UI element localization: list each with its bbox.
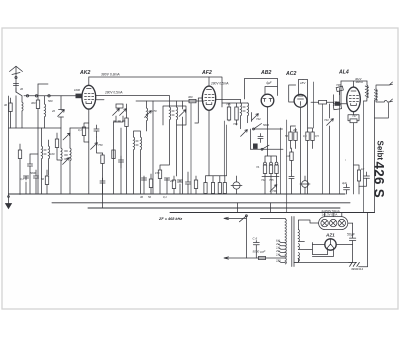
wire vertical x38 down: [37, 128, 39, 194]
wire y82 top: [302, 79, 304, 81]
resistor R9: [158, 170, 161, 179]
wire: [70, 127, 89, 129]
IF transformer T1 coil Lb: [177, 107, 178, 120]
resistor R35: [194, 180, 197, 189]
svg-text:1F: 1F: [361, 167, 364, 171]
svg-text:4V: 4V: [276, 242, 279, 246]
volume pot P2 circle: [233, 182, 240, 189]
svg-text:AB2: AB2: [260, 70, 271, 76]
svg-text:2,2: 2,2: [275, 246, 280, 250]
svg-text:5000: 5000: [263, 123, 269, 127]
svg-text:0,1: 0,1: [303, 134, 307, 138]
resistor R24: [294, 132, 297, 141]
svg-text:7A: 7A: [256, 165, 259, 169]
tube AZ1 envelope: [325, 239, 336, 250]
wire: [152, 101, 154, 194]
capacitor C13: [177, 180, 182, 194]
row wires: [262, 156, 279, 194]
dial lamp 3: [338, 219, 345, 226]
coupling dashes: [243, 107, 245, 111]
supply bus D: [170, 212, 375, 214]
trimmer C21: [241, 130, 248, 137]
voltage selector taps: [279, 241, 286, 263]
svg-text:380V 0,8mA: 380V 0,8mA: [101, 73, 120, 77]
resistor R10 on supply: [189, 99, 196, 102]
T2 wires: [241, 100, 248, 129]
trimmer C10: [179, 110, 186, 117]
AL4 electrodes: [349, 91, 358, 106]
AC2 cathode: [300, 107, 302, 194]
wire: [339, 88, 341, 194]
switch S2: [254, 124, 283, 130]
screen line: [96, 96, 169, 100]
wire: [334, 193, 336, 195]
chassis ground psu: [349, 262, 360, 266]
resistor R27: [290, 152, 293, 161]
smoothing capacitor C20 50uF: [349, 223, 355, 262]
svg-text:746: 746: [272, 189, 277, 193]
svg-text:AF2: AF2: [201, 70, 212, 76]
svg-text:745: 745: [269, 178, 274, 182]
electrolytic C18 4uF: [344, 184, 350, 194]
wire: [120, 128, 122, 194]
oscillator coil L3: [61, 148, 62, 161]
svg-text:744: 744: [261, 178, 266, 182]
resistor R23: [289, 132, 292, 141]
AB2 cathode down: [267, 107, 269, 156]
field resistor R32: [357, 170, 360, 181]
wire right vertical: [374, 100, 376, 213]
svg-text:4µF: 4µF: [342, 181, 347, 185]
wire junction bus: [9, 127, 62, 129]
coil L4: [70, 148, 71, 161]
svg-text:AK2: AK2: [79, 70, 90, 76]
trimmer C8: [113, 109, 120, 116]
padder capacitor C4: [23, 176, 28, 194]
coupling dashes: [114, 120, 125, 122]
wire: [15, 88, 17, 128]
capacitor C5: [33, 170, 38, 194]
resistor R19 dark: [253, 144, 258, 149]
svg-text:AZ1: AZ1: [325, 233, 335, 238]
svg-text:470: 470: [152, 109, 157, 113]
T4 secondary HV: [298, 230, 299, 242]
wire AK2 anode top: [88, 77, 90, 85]
svg-text:5000 µµF: 5000 µµF: [253, 250, 266, 254]
resistor R7: [101, 155, 104, 164]
svg-text:0,5: 0,5: [315, 134, 319, 138]
svg-text:20: 20: [51, 109, 55, 113]
AB2 top box wire: [245, 79, 278, 100]
supply bus C: [88, 207, 340, 209]
wire bottom bus psu: [294, 259, 353, 263]
resistor R25: [306, 132, 309, 141]
svg-text:150: 150: [155, 171, 160, 175]
mains lead upper: [224, 217, 246, 219]
svg-text:50: 50: [148, 195, 151, 199]
capacitor C14: [258, 134, 263, 143]
T3 wires: [364, 81, 368, 101]
coil L2 antenna coil: [45, 104, 46, 117]
svg-text:5000: 5000: [30, 171, 36, 175]
T4 secondary heater: [298, 244, 299, 250]
trimmer C6: [63, 158, 70, 165]
capacitor C12: [164, 178, 169, 194]
anode supply line 380/0,8mA: [89, 77, 222, 107]
wire: [224, 121, 226, 176]
cathode resistor R31: [350, 119, 357, 123]
capacitor C15: [289, 171, 294, 195]
svg-text:748: 748: [336, 83, 341, 87]
capacitor C24: [185, 172, 190, 194]
resistor R11: [149, 179, 152, 188]
wire: [190, 103, 192, 194]
IF transformer T1 coil La: [170, 107, 171, 120]
capacitor C25: [100, 178, 105, 194]
svg-text:280V 0,5mA: 280V 0,5mA: [210, 82, 229, 86]
svg-text:50µF: 50µF: [347, 233, 356, 237]
coupling dashes: [136, 141, 138, 145]
svg-text:750: 750: [98, 143, 103, 147]
AC2 electrodes: [298, 96, 304, 106]
svg-text:744: 744: [256, 117, 261, 121]
trimmer resistor R21: [270, 162, 273, 165]
svg-text:746: 746: [233, 122, 238, 126]
svg-text:0,1: 0,1: [20, 177, 24, 181]
coupling dashes: [65, 151, 68, 159]
tube AK2 envelope: [82, 85, 96, 109]
coil L1: [22, 102, 23, 111]
resistor R16: [223, 183, 226, 194]
coupling dashes: [44, 150, 46, 154]
capacitor C7: [94, 125, 99, 137]
T4 primary top wire: [260, 217, 285, 220]
secondary wires: [294, 220, 319, 262]
component row under IF: capacitor C11: [141, 176, 146, 194]
capacitor C17: [359, 172, 370, 186]
svg-text:300: 300: [31, 101, 36, 105]
svg-text:36mA: 36mA: [356, 80, 363, 84]
wires R17 R18: [222, 103, 248, 125]
small value labels texture: [4, 83, 364, 263]
AZ1 electrodes: [328, 240, 334, 250]
AC2 grid wire: [289, 85, 296, 102]
coupling dashes: [172, 111, 174, 115]
trimmer pot P1: [91, 143, 98, 150]
svg-text:30: 30: [140, 195, 143, 199]
svg-text:220: 220: [275, 259, 281, 263]
wires IFT2: [134, 131, 141, 194]
resistor R1: [9, 103, 12, 112]
resistor R3: [45, 176, 48, 185]
wire: [322, 104, 324, 194]
svg-text:280V 0,5mA: 280V 0,5mA: [104, 91, 123, 95]
svg-text:2,5: 2,5: [275, 253, 280, 257]
component row: resistor R13: [204, 183, 207, 194]
tube AB2 envelope: [261, 94, 274, 107]
resistor R18: [235, 107, 238, 120]
wire: [363, 101, 365, 213]
switch S1 contacts: [16, 92, 62, 96]
svg-text:2M: 2M: [169, 179, 174, 183]
resistor R4: [55, 139, 58, 148]
wire: [250, 129, 252, 149]
svg-text:4999/414: 4999/414: [351, 267, 363, 271]
detector diode load pot P3: [252, 114, 259, 121]
resistor R15: [218, 183, 221, 194]
lamp feed wires: [325, 213, 353, 224]
AB2 diode plates: [263, 99, 272, 102]
pot P5 circle: [302, 181, 309, 188]
svg-text:30: 30: [4, 103, 7, 107]
trimmer capacitor C2: [58, 110, 65, 117]
resistor R28 coupling: [319, 100, 327, 104]
svg-text:1x6,3V 0,3A: 1x6,3V 0,3A: [322, 213, 338, 217]
trimmer resistor R20: [264, 162, 267, 165]
svg-text:50: 50: [41, 177, 44, 181]
resistor R8: [125, 118, 128, 127]
loudspeaker: [375, 82, 393, 118]
svg-text:50: 50: [285, 134, 288, 138]
svg-text:500: 500: [48, 99, 53, 103]
supply bus B: [52, 202, 350, 204]
wire AF2 top: [208, 77, 210, 86]
svg-text:AC2: AC2: [285, 71, 296, 77]
AF2 electrodes: [205, 90, 214, 105]
wire: [345, 159, 347, 161]
wire psu right: [359, 213, 368, 267]
resistor R34: [112, 150, 115, 159]
resistor R36: [18, 150, 21, 159]
capacitor C22: [27, 154, 38, 194]
resistor R6: [82, 127, 85, 136]
oscillator coil L7 variable: [147, 108, 148, 121]
svg-text:0,1: 0,1: [163, 195, 167, 199]
wire AF2 cathode: [208, 110, 210, 176]
resistor R2: [36, 100, 39, 109]
AC2 top box: [299, 80, 308, 103]
transformer T4 primary: [285, 219, 286, 264]
svg-text:426 S: 426 S: [372, 162, 387, 199]
svg-text:6,8: 6,8: [276, 239, 280, 243]
IF coil L5: [134, 137, 135, 150]
wire AF2 grid left: [195, 98, 203, 123]
switch S3 line: [251, 145, 284, 149]
capacitor C1: [13, 84, 18, 86]
wire: [313, 82, 315, 128]
IF transformer T2 coil: [241, 103, 242, 116]
trimmer C3: [63, 133, 70, 140]
IF transformer T2 coil: [248, 103, 249, 116]
svg-text:742: 742: [334, 100, 339, 104]
svg-text:C 6: C 6: [253, 237, 258, 241]
output transformer T3 primary: [365, 85, 368, 98]
dial lamp 2: [330, 219, 337, 226]
resistor R33: [259, 256, 266, 259]
tone pot P4: [270, 185, 277, 192]
mains lead lower: [224, 257, 285, 259]
resistor R14: [211, 183, 214, 194]
trimmer C9: [120, 109, 127, 116]
trimmer arrow through L7: [145, 111, 152, 118]
svg-text:1000: 1000: [74, 88, 80, 92]
output transformer T3 secondary: [374, 89, 377, 100]
svg-text:745: 745: [226, 102, 231, 106]
row top wire: [206, 176, 227, 194]
grid resistor R5 (dark box): [76, 94, 82, 99]
resistor R17: [227, 107, 230, 120]
resistor R12: [172, 180, 175, 189]
svg-text:4V: 4V: [276, 249, 279, 253]
wire y101: [136, 100, 196, 102]
dial lamp 1: [321, 219, 328, 226]
wire: [281, 120, 287, 213]
wire left edge vertical: [8, 96, 10, 194]
oscillator coil L8: [42, 146, 43, 159]
trimmer resistor R22: [275, 162, 278, 165]
T1 frame wires: [163, 96, 186, 177]
capacitor C23: [118, 156, 123, 168]
wire grid to switch: [62, 95, 76, 97]
svg-text:743: 743: [324, 118, 329, 122]
svg-text:40: 40: [20, 87, 23, 91]
ground arrow bottom-left: [6, 194, 12, 209]
tone capacitor pot P6: [327, 119, 334, 126]
svg-text:ZF = 468 kHz: ZF = 468 kHz: [158, 217, 182, 221]
svg-text:0,1: 0,1: [78, 128, 82, 132]
resistor R29 box: [333, 104, 341, 110]
wire AF2 right: [216, 99, 241, 101]
antenna: [10, 66, 23, 79]
wire: [113, 122, 115, 194]
tube AC2 envelope: [294, 94, 307, 107]
tube AL4 envelope: [347, 87, 361, 112]
tube AF2 envelope: [202, 86, 215, 110]
wire antenna down: [15, 79, 17, 92]
AZ1 wires: [312, 243, 352, 257]
svg-text:AL4: AL4: [338, 70, 349, 76]
svg-text:Seibt: Seibt: [376, 141, 385, 161]
svg-text:300: 300: [188, 95, 193, 99]
wire: [60, 96, 62, 148]
mains switch S4: [239, 216, 246, 258]
capacitor C19: [253, 241, 259, 259]
L8 L9 wires: [42, 128, 49, 194]
wire bus connector: [238, 203, 271, 213]
chassis bus A: [9, 193, 346, 195]
oscillator coil L9: [49, 146, 50, 159]
dial lamp box: [319, 217, 348, 230]
IF coil L6: [141, 137, 142, 150]
resistor R30 grid dark: [335, 102, 340, 106]
T4 core: [292, 217, 294, 267]
wire AK2 cathode down: [88, 109, 90, 194]
AL4 cathode network: [348, 112, 359, 121]
svg-text:747: 747: [352, 114, 357, 118]
wire: [38, 83, 48, 85]
T4 secondary LV: [298, 253, 299, 262]
coupling capacitor C16 slanted: [336, 86, 343, 91]
resistor R26: [311, 132, 314, 141]
AK2 electrodes: [85, 89, 94, 104]
svg-text:100: 100: [50, 152, 55, 156]
AL4 top wire: [341, 81, 367, 87]
